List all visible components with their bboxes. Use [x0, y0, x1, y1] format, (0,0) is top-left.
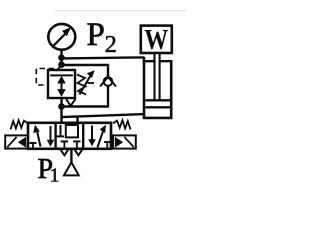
- svg-text:P: P: [87, 17, 105, 53]
- svg-text:2: 2: [105, 31, 117, 58]
- svg-text:1: 1: [50, 165, 60, 187]
- svg-text:W: W: [144, 24, 168, 56]
